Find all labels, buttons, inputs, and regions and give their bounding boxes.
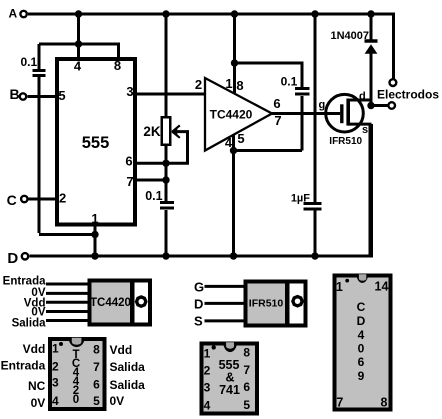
svg-text:7: 7 bbox=[274, 113, 281, 128]
svg-text:2: 2 bbox=[195, 77, 202, 92]
svg-text:NC: NC bbox=[28, 379, 46, 393]
svg-text:d: d bbox=[359, 91, 366, 103]
svg-text:8: 8 bbox=[381, 396, 388, 410]
svg-text:C: C bbox=[357, 300, 366, 314]
svg-text:2K: 2K bbox=[143, 124, 161, 139]
svg-text:7: 7 bbox=[336, 396, 343, 410]
svg-text:1: 1 bbox=[204, 347, 211, 361]
svg-text:Electrodos: Electrodos bbox=[377, 88, 439, 102]
svg-text:6: 6 bbox=[273, 96, 280, 111]
svg-text:IFR510: IFR510 bbox=[249, 297, 284, 309]
svg-text:IFR510: IFR510 bbox=[329, 136, 362, 147]
svg-text:B: B bbox=[10, 86, 20, 102]
svg-text:1µF: 1µF bbox=[291, 192, 310, 204]
svg-text:D: D bbox=[194, 297, 203, 312]
svg-text:0: 0 bbox=[73, 394, 79, 406]
svg-text:Salida: Salida bbox=[12, 317, 46, 329]
svg-text:1N4007: 1N4007 bbox=[330, 30, 369, 42]
svg-text:5: 5 bbox=[237, 131, 244, 146]
svg-text:2: 2 bbox=[59, 191, 66, 206]
svg-text:6: 6 bbox=[358, 355, 365, 369]
svg-text:s: s bbox=[362, 124, 368, 136]
svg-text:Vdd: Vdd bbox=[23, 342, 46, 356]
svg-text:555: 555 bbox=[82, 134, 110, 152]
svg-text:4: 4 bbox=[204, 399, 211, 413]
svg-text:0.1: 0.1 bbox=[145, 189, 162, 203]
svg-text:7: 7 bbox=[126, 174, 133, 189]
svg-text:C: C bbox=[7, 192, 17, 208]
svg-text:G: G bbox=[194, 280, 204, 295]
svg-text:4: 4 bbox=[74, 59, 82, 74]
svg-text:S: S bbox=[194, 314, 203, 329]
svg-text:1: 1 bbox=[336, 280, 343, 294]
svg-text:8: 8 bbox=[243, 346, 250, 360]
svg-text:6: 6 bbox=[125, 154, 132, 169]
svg-text:5: 5 bbox=[58, 88, 65, 103]
svg-text:2: 2 bbox=[204, 364, 211, 378]
svg-text:0V: 0V bbox=[110, 394, 125, 408]
svg-text:8: 8 bbox=[93, 343, 100, 357]
svg-text:0.1: 0.1 bbox=[281, 74, 298, 88]
svg-text:Entrada: Entrada bbox=[3, 276, 46, 288]
svg-text:4: 4 bbox=[52, 394, 59, 408]
svg-text:7: 7 bbox=[93, 360, 100, 374]
svg-text:2: 2 bbox=[52, 359, 59, 373]
svg-text:Vdd: Vdd bbox=[110, 343, 133, 357]
svg-text:Salida: Salida bbox=[110, 360, 146, 374]
svg-text:D: D bbox=[7, 250, 18, 267]
svg-text:1: 1 bbox=[91, 211, 98, 226]
svg-text:8: 8 bbox=[236, 78, 243, 93]
svg-text:0.1: 0.1 bbox=[21, 55, 38, 69]
svg-text:g: g bbox=[319, 99, 326, 111]
svg-text:1: 1 bbox=[225, 76, 232, 91]
svg-text:TC4420: TC4420 bbox=[90, 297, 131, 309]
svg-text:D: D bbox=[357, 314, 366, 328]
svg-text:5: 5 bbox=[93, 394, 100, 408]
svg-text:Entrada: Entrada bbox=[1, 358, 46, 372]
svg-text:9: 9 bbox=[358, 369, 365, 383]
svg-text:1: 1 bbox=[52, 342, 59, 356]
svg-text:7: 7 bbox=[243, 363, 250, 377]
svg-text:Salida: Salida bbox=[110, 378, 146, 392]
svg-text:6: 6 bbox=[243, 380, 250, 394]
svg-text:A: A bbox=[9, 7, 18, 21]
svg-text:0: 0 bbox=[358, 342, 365, 356]
svg-text:3: 3 bbox=[204, 381, 211, 395]
svg-text:5: 5 bbox=[243, 398, 250, 412]
svg-text:741: 741 bbox=[219, 383, 240, 397]
svg-text:8: 8 bbox=[114, 58, 121, 73]
svg-text:3: 3 bbox=[52, 376, 59, 390]
svg-text:6: 6 bbox=[93, 378, 100, 392]
svg-text:3: 3 bbox=[126, 84, 133, 99]
svg-text:TC4420: TC4420 bbox=[210, 108, 253, 122]
svg-text:14: 14 bbox=[375, 280, 389, 294]
svg-text:4: 4 bbox=[225, 135, 233, 150]
svg-text:0V: 0V bbox=[31, 396, 46, 410]
svg-text:4: 4 bbox=[358, 328, 365, 342]
